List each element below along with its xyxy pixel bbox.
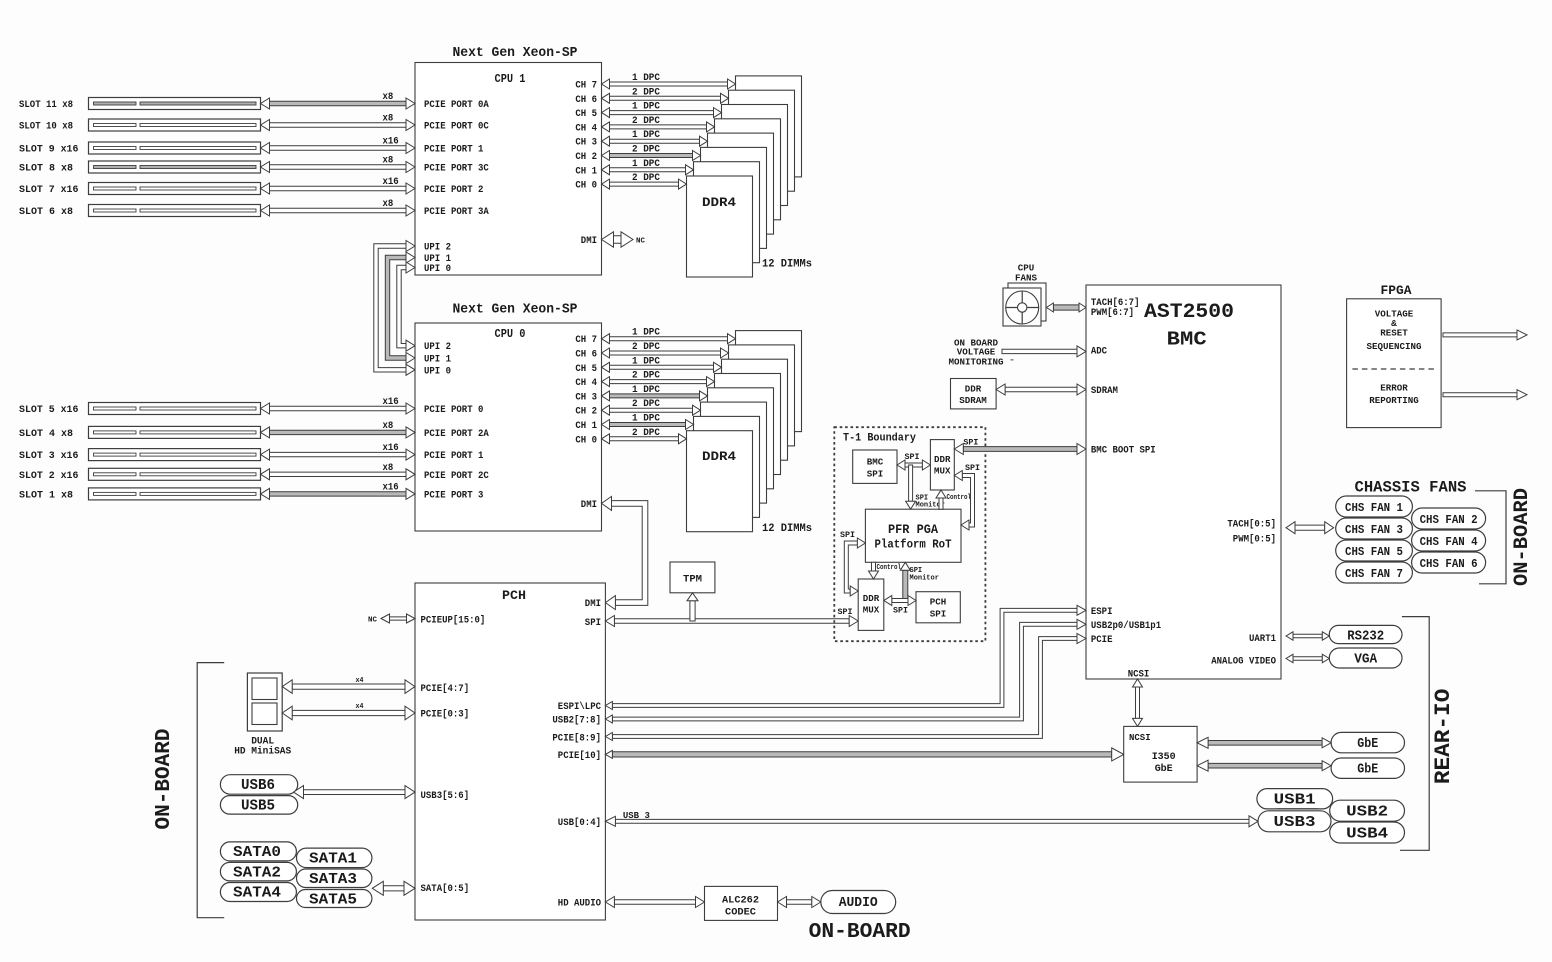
wire PCH HD AUDIO to ALC262 (614, 900, 695, 904)
svg-text:SLOT 3 x16: SLOT 3 x16 (19, 451, 78, 462)
svg-text:1 DPC: 1 DPC (632, 130, 660, 141)
USB3 pill (1258, 811, 1331, 832)
svg-text:PCIE PORT 3: PCIE PORT 3 (424, 490, 483, 501)
svg-text:SLOT 4 x8: SLOT 4 x8 (19, 429, 73, 440)
wire DDR SDRAM to BMC SDRAM (1005, 387, 1077, 391)
PCIe slot connector SLOT 1 (89, 488, 261, 500)
svg-text:PCIE PORT 0C: PCIE PORT 0C (424, 122, 489, 133)
svg-text:CH 0: CH 0 (575, 435, 597, 446)
svg-text:SATA4: SATA4 (233, 885, 281, 902)
svg-text:USB3[5:6]: USB3[5:6] (421, 790, 470, 802)
svg-text:x4: x4 (356, 677, 364, 685)
wire PCH ESPI\LPC to BMC ESPI (612, 608, 1077, 707)
svg-text:Control: Control (877, 564, 902, 572)
wire BMC ANALOG VIDEO to VGA (1293, 657, 1322, 660)
ON-BOARD bracket left (197, 663, 224, 918)
svg-text:GbE: GbE (1155, 763, 1173, 775)
svg-text:CHS FAN 1: CHS FAN 1 (1345, 501, 1403, 515)
svg-text:USB2[7:8]: USB2[7:8] (552, 715, 601, 727)
svg-text:SATA2: SATA2 (233, 864, 281, 881)
wire slot10 to CPU1 PCIE PORT 0C (270, 123, 407, 127)
wire Control PFR to DDR MUX up (939, 498, 943, 509)
svg-text:x16: x16 (383, 397, 399, 408)
CHS FAN 5 pill (1336, 540, 1413, 561)
PCIe slot connector SLOT 10 (89, 119, 261, 131)
SATA2 pill (220, 862, 296, 881)
svg-text:UPI 2: UPI 2 (424, 243, 451, 254)
wire I350 to GbE upper (1208, 741, 1322, 746)
svg-text:PCIE: PCIE (1091, 635, 1113, 646)
RS232 pill (1329, 625, 1402, 643)
DDR4 DIMM stack for CPU1 (12 DIMMs) (736, 76, 802, 177)
svg-text:SPI: SPI (867, 469, 884, 480)
svg-text:NCSI: NCSI (1128, 670, 1150, 681)
svg-text:USB[0:4]: USB[0:4] (558, 817, 601, 829)
svg-text:PCIE PORT 3A: PCIE PORT 3A (424, 207, 489, 218)
svg-text:CH 6: CH 6 (575, 95, 597, 106)
ON-BOARD bracket right (chassis fans) (1475, 491, 1506, 584)
wire CPU1 CH 1 to DIMM (610, 168, 686, 172)
wire slot8 to CPU1 PCIE PORT 3C (270, 165, 407, 169)
wire slot3 to CPU0 PCIE PORT 1 (270, 452, 407, 456)
svg-text:GbE: GbE (1357, 762, 1378, 778)
svg-text:CH 4: CH 4 (575, 123, 597, 134)
wire CPU0 CH 0 to DIMM (610, 437, 679, 441)
svg-text:SATA5: SATA5 (309, 891, 357, 908)
wire DDR MUX right SPI bend to PFR (962, 474, 974, 528)
svg-text:CH 7: CH 7 (575, 335, 597, 346)
svg-text:PCIE PORT 3C: PCIE PORT 3C (424, 164, 489, 175)
USB4 pill (1330, 822, 1405, 843)
svg-text:SPI: SPI (838, 607, 853, 617)
svg-text:SPI: SPI (965, 463, 980, 473)
svg-text:TPM: TPM (683, 574, 702, 586)
wire slot6 to CPU1 PCIE PORT 3A (270, 208, 407, 212)
svg-text:2 DPC: 2 DPC (632, 87, 660, 98)
svg-text:DDR4: DDR4 (702, 450, 737, 464)
svg-text:ON-BOARD: ON-BOARD (809, 921, 911, 944)
svg-text:x8: x8 (383, 156, 394, 167)
svg-text:CH 3: CH 3 (575, 392, 597, 403)
svg-text:CHS FAN 5: CHS FAN 5 (1345, 545, 1403, 559)
svg-text:BMC: BMC (867, 457, 884, 468)
PCIe slot connector SLOT 5 (89, 403, 261, 415)
wire Control PFR down to DDR MUX lower (872, 562, 876, 571)
svg-text:SATA0: SATA0 (233, 844, 281, 861)
wire PCH PCIE[8:9] to BMC PCIE (612, 637, 1077, 739)
CHS FAN 1 pill (1336, 496, 1413, 517)
wire slot4 to CPU0 PCIE PORT 2A (270, 430, 407, 434)
svg-text:T-1 Boundary: T-1 Boundary (843, 433, 916, 445)
svg-text:RESET: RESET (1380, 328, 1408, 339)
svg-text:Next Gen Xeon-SP: Next Gen Xeon-SP (453, 46, 578, 61)
svg-text:USB5: USB5 (241, 798, 275, 815)
svg-text:MUX: MUX (863, 605, 880, 616)
wire slot2 to CPU0 PCIE PORT 2C (270, 472, 407, 476)
wire ALC262 to AUDIO (787, 900, 812, 904)
svg-text:CHASSIS FANS: CHASSIS FANS (1355, 479, 1467, 497)
svg-text:UPI 0: UPI 0 (424, 366, 451, 377)
svg-text:I350: I350 (1152, 751, 1176, 763)
svg-text:x8: x8 (383, 92, 394, 103)
svg-text:x4: x4 (356, 703, 364, 711)
PCH box (415, 583, 605, 920)
svg-text:PCH: PCH (930, 597, 947, 608)
CHS FAN 2 pill (1412, 508, 1486, 529)
svg-text:FANS: FANS (1015, 273, 1037, 284)
svg-text:NC: NC (636, 238, 645, 246)
svg-text:USB2: USB2 (1346, 803, 1388, 820)
svg-text:TACH[6:7]: TACH[6:7] (1091, 297, 1140, 309)
DDR4 DIMM stack for CPU0 (12 DIMMs) (736, 331, 802, 432)
PCIe slot connector SLOT 4 (89, 426, 261, 438)
svg-text:x16: x16 (383, 482, 399, 493)
svg-text:2 DPC: 2 DPC (632, 342, 660, 353)
wire CPU0 CH 3 to DIMM (610, 394, 700, 398)
wire BMC SPI to DDR MUX (905, 463, 922, 467)
wire voltage monitoring to ADC (1002, 349, 1077, 353)
svg-text:CHS FAN 3: CHS FAN 3 (1345, 523, 1403, 537)
svg-text:SEQUENCING: SEQUENCING (1367, 341, 1422, 352)
svg-text:PCIE[10]: PCIE[10] (558, 750, 601, 762)
svg-text:FPGA: FPGA (1381, 284, 1413, 298)
CHS FAN 3 pill (1336, 518, 1413, 539)
PCIe slot connector SLOT 3 (89, 449, 261, 461)
svg-text:CH 2: CH 2 (575, 152, 597, 163)
svg-text:CH 6: CH 6 (575, 350, 597, 361)
USB1 bottom edge visible segment (1277, 808, 1318, 810)
svg-text:USB4: USB4 (1346, 825, 1388, 842)
svg-text:DDR: DDR (863, 593, 880, 604)
svg-text:CHS FAN 4: CHS FAN 4 (1420, 535, 1478, 549)
svg-text:x16: x16 (383, 137, 399, 148)
svg-text:PCIE PORT 1: PCIE PORT 1 (424, 451, 483, 462)
svg-text:ALC262: ALC262 (722, 895, 759, 907)
wire slot7 to CPU1 PCIE PORT 2 (270, 186, 407, 190)
svg-text:CH 1: CH 1 (575, 421, 597, 432)
svg-text:SLOT 11 x8: SLOT 11 x8 (19, 100, 73, 111)
svg-text:CHS FAN 7: CHS FAN 7 (1345, 567, 1403, 581)
wire USB pills to USB3[5:6] (304, 790, 406, 795)
svg-text:Next Gen Xeon-SP: Next Gen Xeon-SP (453, 303, 578, 318)
wire slot11 to CPU1 PCIE PORT 0A (270, 101, 407, 105)
PCIe slot connector SLOT 2 (89, 468, 261, 480)
wire SPI Monitor up from SPI line to PFR (903, 570, 908, 600)
svg-text:USB 3: USB 3 (623, 811, 650, 821)
svg-text:12 DIMMs: 12 DIMMs (762, 259, 812, 271)
svg-text:Control: Control (947, 494, 972, 502)
svg-text:USB1: USB1 (1274, 791, 1316, 808)
USB6 pill (220, 775, 297, 795)
svg-text:SDRAM: SDRAM (1091, 386, 1118, 397)
svg-text:UPI 0: UPI 0 (424, 264, 451, 275)
wire UPI 2 CPU1 to UPI 0 CPU0 (374, 244, 406, 372)
svg-text:ESPI\LPC: ESPI\LPC (558, 701, 601, 713)
USB5 pill (220, 796, 297, 815)
BMC SPI box (853, 450, 897, 483)
svg-text:DMI: DMI (585, 599, 601, 610)
wire FPGA error reporting out (1443, 393, 1517, 397)
wire CPU0 CH 4 to DIMM (610, 380, 707, 384)
wire CPU1 DMI to NC (614, 236, 622, 244)
wire CPU0 CH 6 to DIMM (610, 351, 721, 355)
svg-text:BMC: BMC (1167, 329, 1207, 351)
FPGA dashed divider (1352, 368, 1436, 370)
svg-text:NC: NC (368, 617, 377, 625)
svg-text:TACH[0:5]: TACH[0:5] (1227, 519, 1276, 531)
wire PCIEUP to NC (390, 617, 407, 620)
svg-text:Monitor: Monitor (910, 575, 939, 583)
svg-text:RS232: RS232 (1347, 629, 1384, 645)
svg-text:SLOT 8 x8: SLOT 8 x8 (19, 164, 73, 175)
CPU 0 box (415, 323, 602, 531)
wire CPU1 CH 0 to DIMM (610, 182, 679, 186)
svg-text:DMI: DMI (581, 500, 597, 511)
svg-text:ERROR: ERROR (1380, 383, 1408, 394)
svg-text:SLOT 6 x8: SLOT 6 x8 (19, 207, 73, 218)
wire slot5 to CPU0 PCIE PORT 0 (270, 406, 407, 410)
DDR SDRAM box (951, 379, 997, 409)
svg-text:PCIE PORT 2A: PCIE PORT 2A (424, 429, 489, 440)
wire CPU1 CH 6 to DIMM (610, 96, 721, 100)
svg-text:VGA: VGA (1354, 652, 1378, 668)
svg-text:DDR: DDR (965, 384, 982, 395)
wire MiniSAS to PCIE[0:3] (292, 710, 405, 715)
wire MiniSAS to PCIE[4:7] (292, 684, 405, 689)
wire CPU1 CH 4 to DIMM (610, 125, 707, 129)
svg-text:12 DIMMs: 12 DIMMs (762, 523, 812, 535)
svg-text:x16: x16 (383, 177, 399, 188)
wire SPI monitor down to PFR (909, 465, 913, 501)
svg-text:SLOT 9 x16: SLOT 9 x16 (19, 145, 78, 156)
svg-text:1 DPC: 1 DPC (632, 414, 660, 425)
USB1 pill (1257, 789, 1333, 809)
DDR MUX box lower (858, 579, 884, 630)
svg-text:BMC BOOT SPI: BMC BOOT SPI (1091, 446, 1156, 457)
svg-text:ADC: ADC (1091, 346, 1107, 357)
svg-text:SATA[0:5]: SATA[0:5] (421, 883, 470, 895)
svg-text:MUX: MUX (934, 466, 951, 477)
svg-text:CHS FAN 2: CHS FAN 2 (1420, 513, 1478, 527)
FPGA box (1347, 299, 1442, 428)
wire CPU1 CH 5 to DIMM (610, 111, 714, 115)
svg-text:2 DPC: 2 DPC (632, 399, 660, 410)
I350 GbE box (1124, 726, 1197, 782)
svg-text:CHS FAN 6: CHS FAN 6 (1420, 557, 1478, 571)
svg-text:HD MiniSAS: HD MiniSAS (234, 746, 291, 758)
svg-text:2 DPC: 2 DPC (632, 428, 660, 439)
svg-text:CODEC: CODEC (725, 907, 757, 919)
svg-text:SLOT 5 x16: SLOT 5 x16 (19, 405, 78, 416)
PCIe slot connector SLOT 9 (89, 142, 261, 154)
SATA0 pill (220, 842, 296, 861)
AUDIO pill (821, 891, 896, 914)
svg-text:ON-BOARD: ON-BOARD (153, 729, 176, 830)
wire CPU1 CH 3 to DIMM (610, 139, 700, 143)
svg-text:2 DPC: 2 DPC (632, 371, 660, 382)
PCIe slot connector SLOT 6 (89, 205, 261, 217)
svg-text:SATA3: SATA3 (309, 871, 357, 888)
svg-text:x8: x8 (383, 421, 394, 432)
svg-text:1 DPC: 1 DPC (632, 356, 660, 367)
svg-text:DDR4: DDR4 (702, 196, 737, 210)
USB2 pill (1330, 800, 1405, 821)
wire FPGA voltage sequencing out (1443, 333, 1517, 337)
wire PCH USB2[7:8] to BMC USB2p0/USB1p1 (612, 622, 1077, 721)
svg-text:PFR PGA: PFR PGA (888, 523, 938, 537)
svg-text:ESPI: ESPI (1091, 607, 1113, 618)
svg-text:CH 5: CH 5 (575, 364, 597, 375)
GbE pill lower (1331, 758, 1404, 778)
wire SPI branch to TPM (690, 601, 695, 621)
svg-text:USB3: USB3 (1274, 814, 1316, 831)
svg-text:SPI: SPI (963, 438, 978, 448)
ALC262 CODEC box (705, 886, 778, 920)
VGA pill (1329, 648, 1402, 668)
wire DDR MUX lower to PCH SPI (892, 599, 908, 603)
svg-text:REAR-IO: REAR-IO (1431, 689, 1456, 785)
svg-text:CH 2: CH 2 (575, 407, 597, 418)
svg-text:PCIE PORT 1: PCIE PORT 1 (424, 145, 483, 156)
svg-text:UART1: UART1 (1249, 634, 1276, 645)
wire slot1 to CPU0 PCIE PORT 3 (270, 492, 407, 496)
wire CPU0 CH 1 to DIMM (610, 423, 686, 427)
SATA4 pill (220, 883, 296, 902)
DUAL HD MiniSAS connector (247, 673, 282, 731)
wire UPI 0 CPU1 to UPI 2 CPU0 (397, 265, 406, 348)
wire PCH SPI to DDR MUX (T-1) (614, 619, 849, 623)
svg-text:x8: x8 (383, 114, 394, 125)
CHS FAN 6 pill (1412, 552, 1486, 573)
svg-text:CH 0: CH 0 (575, 181, 597, 192)
svg-text:PCIE PORT 0: PCIE PORT 0 (424, 405, 483, 416)
svg-text:SLOT 10 x8: SLOT 10 x8 (19, 122, 73, 133)
REAR-IO bracket (1400, 617, 1429, 851)
svg-text:CH 5: CH 5 (575, 109, 597, 120)
svg-text:SPI: SPI (585, 618, 601, 629)
svg-text:ANALOG VIDEO: ANALOG VIDEO (1211, 656, 1276, 667)
wire CPU0 CH 7 to DIMM (610, 337, 728, 341)
wire SATA pills to SATA[0:5] (383, 886, 404, 891)
svg-text:SLOT 1 x8: SLOT 1 x8 (19, 490, 73, 501)
CHS FAN 4 pill (1412, 530, 1486, 551)
wire BMC NCSI to I350 NCSI (1136, 687, 1140, 718)
svg-text:CPU 1: CPU 1 (495, 72, 526, 86)
wire UPI 1 CPU1 to UPI 1 CPU0 (385, 255, 406, 360)
svg-text:CH 1: CH 1 (575, 166, 597, 177)
GbE pill upper (1331, 732, 1404, 752)
svg-text:AST2500: AST2500 (1144, 301, 1234, 324)
svg-text:UPI 2: UPI 2 (424, 342, 451, 353)
svg-text:PCIE[8:9]: PCIE[8:9] (552, 733, 601, 745)
T-1 Boundary dashed box (834, 427, 985, 641)
SATA3 pill (297, 869, 372, 888)
svg-text:MONITORING: MONITORING (949, 356, 1004, 367)
svg-text:1 DPC: 1 DPC (632, 102, 660, 113)
svg-text:USB6: USB6 (241, 777, 275, 794)
svg-text:HD AUDIO: HD AUDIO (558, 899, 601, 910)
SATA5 pill (297, 890, 372, 908)
wire CPU FANS to BMC TACH/PWM (1053, 305, 1079, 310)
svg-text:PWM[0:5]: PWM[0:5] (1233, 534, 1276, 546)
svg-text:PCIE PORT 2C: PCIE PORT 2C (424, 471, 489, 482)
wire slot9 to CPU1 PCIE PORT 1 (270, 146, 407, 150)
PFR PGA Platform RoT box (865, 509, 961, 562)
DDR MUX box upper (930, 440, 954, 490)
svg-text:2 DPC: 2 DPC (632, 173, 660, 184)
svg-text:PCH: PCH (502, 588, 526, 603)
svg-text:PWM[6:7]: PWM[6:7] (1091, 307, 1134, 319)
svg-text:DDR: DDR (934, 454, 951, 465)
svg-text:Platform RoT: Platform RoT (875, 539, 952, 552)
BMC AST2500 box (1086, 285, 1281, 679)
svg-text:USB2p0/USB1p1: USB2p0/USB1p1 (1091, 620, 1161, 632)
SATA1 pill (297, 848, 372, 868)
TPM box (670, 562, 715, 593)
stray dot after MONITORING (1011, 359, 1014, 361)
svg-text:CH 4: CH 4 (575, 378, 597, 389)
svg-text:PCIE[4:7]: PCIE[4:7] (421, 683, 470, 695)
CPU FANS icon (1008, 283, 1046, 321)
wire PCH USB[0:4] to USB3 rear (615, 819, 1249, 823)
CHS FAN 7 pill (1336, 562, 1413, 583)
svg-text:CPU 0: CPU 0 (495, 327, 526, 341)
PCH SPI box (916, 592, 960, 623)
wire I350 to GbE lower (1208, 763, 1322, 768)
wire PFR left SPI loop to DDR MUX lower (844, 541, 857, 593)
PCIe slot connector SLOT 8 (89, 161, 261, 173)
svg-text:CH 3: CH 3 (575, 138, 597, 149)
wire CPU0 CH 2 to DIMM (610, 408, 693, 412)
svg-text:1 DPC: 1 DPC (632, 385, 660, 396)
wire CPU0 DMI to PCH DMI (612, 501, 648, 606)
wire CPU1 CH 2 to DIMM (610, 154, 693, 158)
svg-text:PCIE PORT 0A: PCIE PORT 0A (424, 100, 489, 111)
svg-text:AUDIO: AUDIO (839, 895, 878, 911)
svg-text:ON-BOARD: ON-BOARD (1511, 488, 1534, 586)
svg-text:SPI: SPI (930, 609, 947, 620)
svg-text:GbE: GbE (1357, 736, 1378, 752)
CPU 1 box (415, 63, 602, 276)
svg-text:2 DPC: 2 DPC (632, 145, 660, 156)
svg-text:SATA1: SATA1 (309, 851, 357, 868)
svg-text:SDRAM: SDRAM (959, 395, 987, 406)
wire BMC TACH/PWM to chassis fans (1295, 525, 1325, 530)
svg-text:SLOT 7 x16: SLOT 7 x16 (19, 185, 78, 196)
svg-text:1 DPC: 1 DPC (632, 328, 660, 339)
svg-text:x8: x8 (383, 463, 394, 474)
svg-text:UPI 1: UPI 1 (424, 355, 451, 366)
svg-text:REPORTING: REPORTING (1369, 395, 1419, 406)
svg-text:1 DPC: 1 DPC (632, 73, 660, 84)
svg-text:DMI: DMI (581, 236, 597, 247)
wire PCH PCIE[10] to I350 GbE (612, 752, 1111, 757)
svg-text:NCSI: NCSI (1129, 732, 1151, 743)
svg-text:CH 7: CH 7 (575, 81, 597, 92)
svg-text:PCIE[0:3]: PCIE[0:3] (421, 709, 470, 721)
wire DDR MUX upper to BMC BOOT SPI (963, 447, 1077, 452)
PCIe slot connector SLOT 11 (89, 98, 261, 110)
svg-text:SPI: SPI (840, 530, 855, 540)
svg-text:SLOT 2 x16: SLOT 2 x16 (19, 471, 78, 482)
svg-text:x16: x16 (383, 443, 399, 454)
PCIe slot connector SLOT 7 (89, 183, 261, 195)
wire CPU0 CH 5 to DIMM (610, 365, 714, 369)
svg-text:2 DPC: 2 DPC (632, 116, 660, 127)
svg-text:PCIE PORT 2: PCIE PORT 2 (424, 185, 483, 196)
svg-text:x8: x8 (383, 199, 394, 210)
svg-text:PCIEUP[15:0]: PCIEUP[15:0] (421, 615, 486, 627)
